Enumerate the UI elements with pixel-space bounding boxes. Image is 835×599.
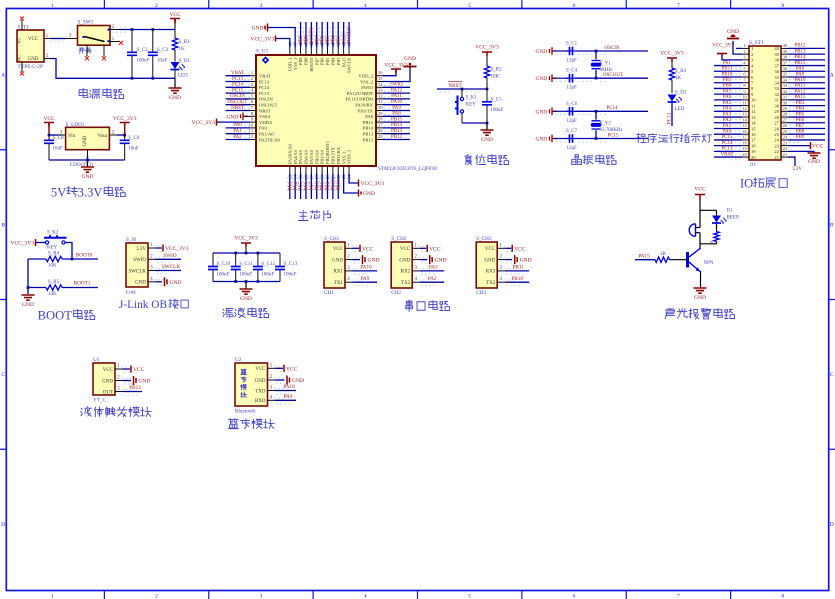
svg-text:30: 30 [378,105,383,110]
svg-text:PC15: PC15 [607,133,619,138]
svg-text:SWIO: SWIO [163,253,177,259]
ST1 pin 18 (left) [742,145,749,147]
svg-text:TYPE-C-2P: TYPE-C-2P [18,64,43,70]
wire/net PA11 [383,98,410,100]
power port VCC [170,19,180,23]
svg-text:TX2: TX2 [401,281,411,286]
svg-text:VDD_2: VDD_2 [358,74,373,79]
ST1 pin 34 (right) [781,82,788,84]
svg-text:S_C11: S_C11 [239,262,253,267]
U1 pin 48 VDD_1 (top) [289,48,291,56]
svg-text:VCC: VCC [429,246,441,252]
ST1 pin 10 (left) [742,99,749,101]
svg-text:GND: GND [536,137,548,143]
U1 pin 45 PB8 (top) [305,48,307,56]
svg-text:S_C2: S_C2 [137,48,149,53]
wire/net PA12 (ST1 right) [788,93,825,95]
svg-text:SWCLK: SWCLK [162,264,180,270]
svg-text:PB14: PB14 [363,126,374,131]
svg-text:C: C [1,372,5,378]
svg-text:36: 36 [378,70,383,75]
J-Link pin 2 SWIO [148,258,156,260]
title 液体触发模块 [81,407,92,417]
title 程序运行指示灯 [637,134,647,143]
svg-text:3.3V: 3.3V [792,167,802,172]
svg-text:PA15: PA15 [795,95,806,100]
power ground GND (J-Link pin4) [156,281,163,283]
ST1 pin 31 (right) [781,99,788,101]
U2 pin 1 VCC [268,367,276,369]
svg-text:C: C [830,372,834,378]
svg-text:34: 34 [774,81,779,86]
svg-text:11: 11 [751,103,756,108]
wire VCC rail [112,31,126,33]
U1 pin 13 PA3RX/A0 (bottom) [289,166,291,174]
title 蓝牙模块 [228,419,238,429]
title 声光报警电路 [665,308,675,319]
U1 pin 47 VSS_1 (top) [294,48,296,56]
svg-text:S_C9: S_C9 [128,136,140,141]
svg-text:VCC_3V3: VCC_3V3 [712,44,734,49]
svg-text:IO: IO [740,176,753,190]
svg-text:PA4: PA4 [723,107,732,112]
power ground at U1 VSSA (pin 8) [241,113,248,121]
wire/net PA4 (ST1 left) [714,110,742,112]
ST1 pin 12 (left) [742,110,749,112]
U1 pin 40 PB4 (top) [332,48,334,56]
wire/net PA15 (ST1 right) [788,99,825,101]
svg-text:27: 27 [378,122,383,127]
svg-text:12: 12 [751,109,756,114]
svg-text:VSSA: VSSA [259,114,271,119]
wire NRST node [437,88,487,90]
U1 pin 16 PA6/A0 (bottom) [305,166,307,174]
S_CH2 pin 2 GND [412,259,420,261]
power port GND (S_Y1 bottom) [550,74,557,82]
svg-text:PC13: PC13 [259,79,270,84]
U1 pin 32 PA11/USBDM [376,98,383,100]
svg-text:PA6: PA6 [723,95,732,100]
svg-text:PB0/A0: PB0/A0 [314,149,319,164]
power port VCC (liquid) [123,368,131,370]
LDO pin 3 [58,134,66,136]
wire/net PA6 (bottom) [305,174,307,200]
svg-text:PC15: PC15 [259,91,270,96]
power ground GND (LDO) [87,160,89,167]
svg-text:S_C12: S_C12 [261,262,275,267]
svg-text:IO: IO [750,162,756,168]
svg-text:PB4: PB4 [796,107,805,112]
junction rail-C3 [151,28,154,31]
wire/net PA11 (ST1 right) [788,87,825,89]
svg-text:PA11: PA11 [391,94,402,99]
svg-text:PB12: PB12 [363,137,374,142]
wire/net PB3 (ST1 right) [788,105,825,107]
power port VCC_3V3 at U1 VDDA (pin 9) [216,119,218,126]
ST1 pin 21 (right) [781,156,788,158]
junction gnd-C3 [151,77,154,80]
power ground GND at U1 VSS_3 [344,174,358,194]
svg-text:D: D [1,522,5,528]
U1 pin 38 PA15 (top) [343,48,345,56]
ST1 pin 28 (right) [781,116,788,118]
svg-text:S_Y2: S_Y2 [600,122,612,127]
svg-text:NRST: NRST [448,83,462,89]
wire/net PB11 (S_CH3 RX) [505,270,530,272]
svg-text:LED: LED [675,107,685,112]
wire/net PA2 [226,139,251,141]
svg-text:6: 6 [573,3,576,9]
U1 pin 12 PA2TX/A0 [250,139,256,141]
junction NRST-key [461,88,464,91]
svg-text:D: D [830,522,834,528]
svg-text:S_CH1: S_CH1 [324,236,340,242]
svg-text:4: 4 [364,593,367,599]
wire/net PB1 (bottom) [321,174,323,200]
svg-text:PA12: PA12 [795,89,806,94]
svg-text:OSCIN: OSCIN [259,97,273,102]
wire/net PB5 (top) [326,22,328,48]
svg-text:13: 13 [751,115,756,120]
svg-text:5: 5 [468,3,471,9]
wire/net PC13 [226,81,251,83]
power port GND (S_Y2 top) [550,108,557,116]
ST1 pin 27 (right) [781,122,788,124]
svg-text:OUT: OUT [103,390,113,395]
wire/net PB8 (ST1 right) [788,133,825,135]
wire/net PB5 (ST1 right) [788,116,825,118]
svg-text:NPN: NPN [704,261,714,266]
power port VCC (LDO input) [44,123,54,127]
junction [245,280,248,283]
svg-text:PA3RX/A0: PA3RX/A0 [287,143,292,164]
wire filter bottom rail [213,281,280,283]
svg-text:10uF: 10uF [53,146,64,151]
svg-text:PC13: PC13 [232,77,244,82]
power port VCC_3V3 (boot) [35,239,37,246]
svg-text:VBAT: VBAT [720,152,733,157]
ST1 pin 16 (left) [742,133,749,135]
svg-text:GND: GND [404,56,416,62]
wire/net PB7 (top) [316,22,318,48]
svg-text:VCC_3V3: VCC_3V3 [234,236,258,242]
power port VCC bar (ST1 pin3) [722,54,742,60]
svg-text:NC: NC [17,55,22,61]
power ground GND (ST1 pin 22) [788,151,814,153]
svg-text:PA0: PA0 [723,130,732,135]
svg-text:PA1: PA1 [233,129,242,134]
wire/net PC14 (ST1 left) [714,145,742,147]
svg-text:PA9: PA9 [796,72,805,77]
S_T1 top no-connect pin [21,20,23,30]
svg-text:GND: GND [536,109,548,115]
wire/net SWCLK (top) [348,22,350,48]
svg-text:PB11: PB11 [722,67,733,72]
svg-text:27: 27 [774,121,779,126]
svg-text:PA8: PA8 [796,67,805,72]
power ground GND (alarm) [694,288,707,293]
ST1 pin 15 (left) [742,127,749,129]
svg-text:8: 8 [781,3,784,9]
svg-text:PA3: PA3 [723,112,732,117]
svg-text:VSS_2: VSS_2 [360,79,374,84]
U1 pin 33 PA12/USBDP [376,92,383,94]
svg-text:S_D1: S_D1 [179,59,191,64]
U1 pin 7 NRST [250,110,256,112]
svg-text:RX1: RX1 [334,270,344,275]
svg-text:BOOT0: BOOT0 [76,253,93,259]
wire/net SWIO [383,86,410,88]
svg-text:12pF: 12pF [567,59,578,64]
svg-text:PB11/RX: PB11/RX [336,146,341,164]
ST1 pin 9 (left) [742,93,749,95]
switch S_SW1 [78,26,111,46]
wire/net PA9 (bluetooth RXD) [275,399,296,401]
capacitor S_C8 10uF [48,135,50,140]
svg-text:100nF: 100nF [217,273,230,278]
svg-text:VSS_3: VSS_3 [341,151,346,164]
S_CH3 pin 4 TX3 [497,281,505,283]
svg-text:12pF: 12pF [567,86,578,91]
wire/net PC13 (run LED) [671,103,673,127]
svg-text:100uF: 100uF [137,58,150,63]
ST1 pin 24 (right) [781,139,788,141]
connector S_ST1 (IO header) [749,46,781,160]
transistor Q1 NPN [686,252,689,268]
svg-text:PB13: PB13 [363,132,374,137]
svg-text:VCC_3V3: VCC_3V3 [475,45,499,51]
resistor S_R1 1K [174,30,176,39]
svg-text:S_C8: S_C8 [53,136,65,141]
svg-text:26: 26 [774,126,779,131]
ST1 pin 3 (left) [742,59,749,61]
svg-text:GND: GND [399,258,410,263]
svg-text:VCC: VCC [812,144,824,150]
svg-text:26: 26 [378,128,383,133]
svg-text:PA10: PA10 [283,384,295,390]
svg-text:12pF: 12pF [567,119,578,124]
ST1 pin 13 (left) [742,116,749,118]
svg-text:YT_C: YT_C [93,398,107,404]
wire/net PB2 (bottom) [326,174,328,200]
svg-text:VCC_3V3: VCC_3V3 [250,37,274,43]
capacitor S_C5 100nF [486,89,488,101]
svg-text:PB15: PB15 [391,117,403,122]
U1 pin 8 VSSA [250,115,256,117]
svg-text:PB9: PB9 [796,135,805,140]
svg-text:GND: GND [252,26,264,32]
S_T1 pin 2 GND [44,58,51,60]
wire/net PA12 [383,92,410,94]
U1 liquid pin 2 GND [115,380,123,382]
svg-text:S_J0: S_J0 [126,237,136,243]
svg-text:4: 4 [364,3,367,9]
wire/net SWIO [156,258,182,260]
svg-text:PB3: PB3 [336,57,341,65]
svg-text:VCC: VCC [694,187,706,193]
svg-text:31: 31 [783,95,787,100]
power ground GND (filter) [245,282,247,290]
wire/net PA1 [226,133,251,135]
wire/net PB4 (ST1 right) [788,110,825,112]
svg-text:PC15: PC15 [721,135,733,140]
svg-text:PC13: PC13 [721,147,733,152]
svg-text:25: 25 [774,132,779,137]
svg-text:BOOT: BOOT [38,308,73,322]
power port VCC_3V3 at U1 VDD_3 [349,174,358,184]
U1 pin 21 PB10/TX (bottom) [332,166,334,174]
svg-text:PB12: PB12 [391,135,403,140]
U1 pin 6 OSCOUT [250,104,256,106]
wire LDO Vout to VCC_3V3 [117,134,125,136]
wire PC14 [556,114,568,116]
junction [595,77,598,80]
U1 pin 11 PA1/A0 [250,133,256,135]
svg-text:34: 34 [378,82,383,87]
wire/net NRST [226,110,251,112]
svg-text:PB11: PB11 [513,265,525,271]
wire/net PB12 [383,139,410,141]
wire/net PB0 (bottom) [316,174,318,200]
svg-text:21: 21 [774,155,779,160]
svg-text:1: 1 [51,593,54,599]
svg-text:S_R2: S_R2 [491,68,503,73]
svg-text:PB12: PB12 [794,44,806,49]
ST1 pin 32 (right) [781,93,788,95]
svg-text:PC14: PC14 [606,106,618,111]
wire alarm trunk [700,200,717,210]
svg-text:RXD: RXD [255,399,266,404]
svg-text:GND: GND [170,280,182,286]
capacitor S_C11 100nF [235,253,237,266]
svg-text:PB10: PB10 [511,276,523,282]
MCU S_U1 STM32F103C8T6_LQFP48 [256,55,376,166]
svg-text:VCC_3V3: VCC_3V3 [191,120,215,126]
svg-text:S_C7: S_C7 [566,129,578,134]
S_CH1 pin 1 VCC [345,247,353,249]
svg-text:3.3V: 3.3V [78,185,103,199]
junction BOOT0 [71,258,74,261]
ST1 pin 6 (left) [742,76,749,78]
wire GND rail bottom [51,59,175,79]
svg-text:33: 33 [774,86,779,91]
U1 pin 1 VBAT [250,75,256,77]
wire T1 VCC to switch [50,40,64,42]
wire/net PA10 (ST1 right) [788,82,825,84]
svg-text:VCC_3V3: VCC_3V3 [10,241,34,247]
svg-text:PB15: PB15 [794,61,806,66]
U1 pin 42 PB6 (top) [321,48,323,56]
connector S_CH3 [476,242,497,288]
svg-text:PA1: PA1 [723,124,732,129]
svg-text:PB5: PB5 [325,57,330,65]
svg-text:BEEP: BEEP [727,216,739,221]
power ground GND at U1 VSS_2 [383,72,410,82]
svg-text:1K: 1K [675,76,682,81]
svg-text:PB10: PB10 [331,179,336,191]
svg-text:CH2: CH2 [391,290,401,296]
U2 pin 3 TXD [268,390,276,392]
U1 pin 34 SWIO [376,86,383,88]
svg-text:GND: GND [694,295,706,301]
U1 liquid pin 1 VCC [115,368,123,370]
wire/net PA2 (ST1 left) [714,122,742,124]
svg-text:PA10: PA10 [795,78,806,83]
junction rail-C2 [131,28,134,31]
svg-text:7: 7 [677,3,680,9]
wire/net PB11 (ST1 left) [714,70,742,72]
svg-text:1K: 1K [179,47,186,52]
svg-text:PA9: PA9 [392,106,401,111]
S_SW1 bottom no-connect pins [86,45,88,56]
svg-text:1: 1 [743,43,745,48]
svg-text:31: 31 [774,98,779,103]
svg-text:PA9/TX: PA9/TX [358,108,374,113]
module U1 (liquid sensor) [93,363,115,395]
svg-text:PC15: PC15 [232,88,244,93]
svg-text:PA2: PA2 [723,118,732,123]
svg-text:VCC: VCC [286,366,298,372]
svg-text:GND: GND [240,296,252,302]
svg-text:11: 11 [742,100,746,105]
chip logo [263,58,268,63]
svg-text:VCC: VCC [400,247,411,252]
push button S_K2 KEY [36,242,45,244]
svg-text:GND: GND [536,49,548,55]
wire filter top rail [213,252,280,254]
connector S_T1 (TYPE-C-2P) [17,30,44,62]
power port VCC (S_CH3) [505,247,512,249]
junction Vout-C9 [123,134,126,137]
power port VCC_3V3 at U1 VDD_2 [383,69,396,76]
svg-text:PA2: PA2 [233,135,242,140]
svg-text:GND: GND [481,137,493,143]
svg-text:SWCLK: SWCLK [347,57,352,73]
svg-text:GND: GND [227,114,239,120]
J-Link pin 4 GND [148,281,156,283]
switch label 开关 [79,48,85,53]
svg-text:30: 30 [774,103,779,108]
svg-text:29: 29 [774,109,779,114]
wire/net PA6 (ST1 left) [714,99,742,101]
wire/net PB9 (top) [300,22,302,48]
svg-text:PB6: PB6 [320,57,325,65]
wire/net PA4 (bottom) [294,174,296,200]
svg-text:GND: GND [368,258,380,264]
svg-text:OSCIN: OSCIN [604,46,619,51]
wire/net PA3 (bottom) [289,174,291,200]
svg-text:1: 1 [51,3,54,9]
svg-text:VCC_3V3: VCC_3V3 [660,51,684,57]
svg-text:B: B [1,222,5,228]
svg-text:28: 28 [774,115,779,120]
svg-text:S_CH3: S_CH3 [476,236,492,242]
wire/net PA7 (bottom) [310,174,312,200]
svg-text:A: A [830,73,834,79]
svg-text:15: 15 [751,126,756,131]
title 滤波电路 [223,309,233,318]
svg-text:3: 3 [260,593,263,599]
crystal S_Y1 8MHz [595,51,597,59]
svg-text:22: 22 [783,146,787,151]
U1 pin 23 VSS_3 (bottom) [343,166,345,174]
U1 pin 25 PB12 [376,139,383,141]
svg-text:KEY: KEY [47,246,58,251]
svg-text:100nF: 100nF [491,108,504,113]
svg-text:PA6/A0: PA6/A0 [304,149,309,164]
S_T1 bottom no-connect pin [21,62,23,72]
svg-text:S_K1: S_K1 [466,96,478,101]
